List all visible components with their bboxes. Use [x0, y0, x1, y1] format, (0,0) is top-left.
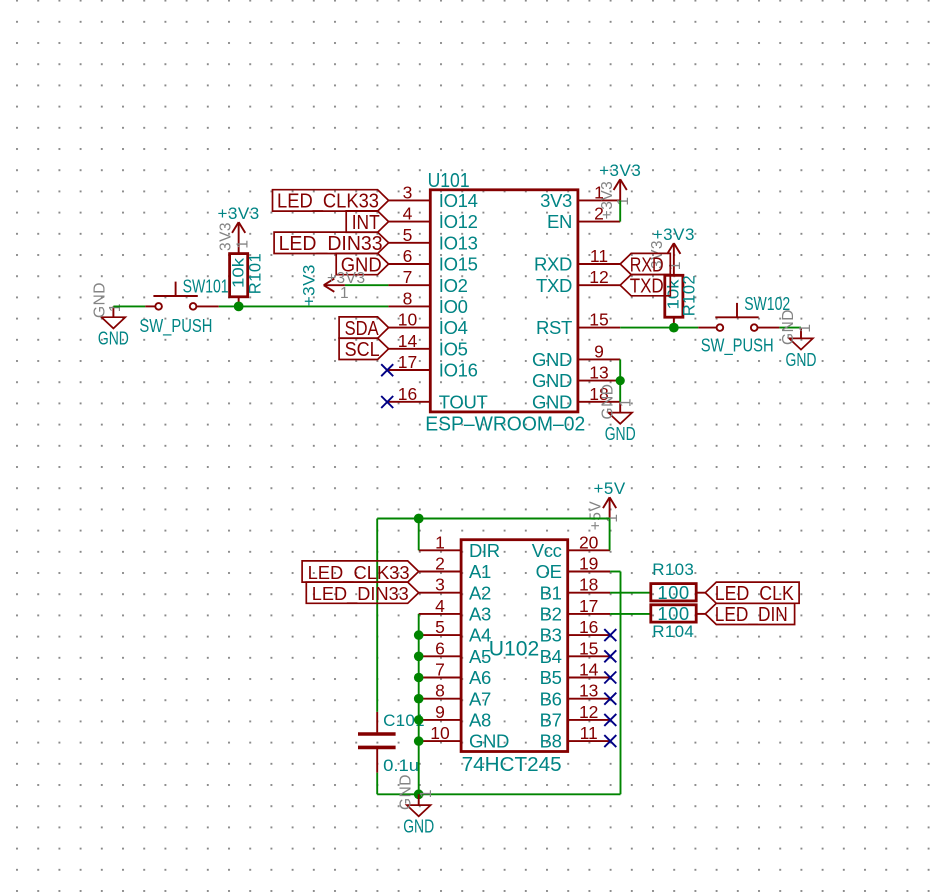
pin 15 B4	[540, 638, 610, 667]
junction (GND rail)	[414, 789, 424, 799]
wire SW101 to IO0	[219, 305, 389, 307]
net label RXD	[620, 253, 670, 276]
svg-text:Vcc: Vcc	[532, 540, 562, 561]
no-connect pin 11	[604, 735, 616, 747]
svg-text:3: 3	[403, 182, 413, 202]
pin 20 Vcc	[532, 532, 610, 561]
no-connect pin 14	[604, 672, 616, 684]
svg-text:5: 5	[403, 225, 413, 245]
svg-text:+3V3: +3V3	[599, 161, 641, 180]
svg-text:2: 2	[435, 554, 445, 574]
svg-text:13: 13	[579, 681, 598, 701]
pin 8 A7	[419, 681, 491, 710]
pin 18 B1	[540, 575, 610, 604]
svg-text:1: 1	[340, 285, 349, 302]
svg-text:9: 9	[594, 341, 604, 361]
svg-text:GND: GND	[532, 370, 572, 391]
svg-text:TXD: TXD	[630, 276, 664, 298]
svg-text:B3: B3	[540, 625, 562, 646]
net label LED_CLK33 (U102)	[302, 561, 419, 584]
ground GND (left)	[98, 306, 129, 348]
pin 16 TOUT	[388, 384, 487, 413]
pin 11 RXD	[534, 246, 620, 275]
IC U101 ESP-WROOM-02	[388, 170, 620, 435]
pin 6 A5	[419, 638, 491, 667]
svg-text:4: 4	[435, 596, 445, 616]
svg-text:GND: GND	[605, 423, 636, 444]
svg-text:20: 20	[579, 532, 599, 552]
pin 1 3V3	[540, 182, 620, 211]
svg-text:LED_CLK33: LED_CLK33	[308, 562, 410, 584]
power +3V3 (R102)	[653, 225, 695, 275]
svg-text:18: 18	[579, 575, 598, 595]
svg-text:B1: B1	[540, 582, 562, 603]
junction (R101/SW101/IO0)	[234, 302, 244, 312]
pin 6 IO15	[388, 246, 477, 275]
wire +3V3 to IO2	[345, 284, 389, 286]
svg-text:LED_CLK33: LED_CLK33	[277, 191, 379, 213]
svg-text:10: 10	[398, 310, 418, 330]
svg-text:R103: R103	[652, 560, 694, 579]
pin 5 IO13	[388, 225, 477, 254]
no-connect pin 16	[381, 396, 393, 408]
svg-text:11: 11	[590, 246, 608, 266]
junction (R102/RST)	[669, 323, 679, 333]
wire C101 to GND rail	[376, 773, 378, 795]
svg-text:74HCT245: 74HCT245	[462, 754, 562, 776]
ground GND (bottom)	[403, 794, 434, 836]
net label LED_CLK	[705, 582, 799, 605]
svg-text:19: 19	[579, 554, 598, 574]
wire OE to GND rail	[610, 572, 620, 795]
svg-text:TOUT: TOUT	[439, 391, 488, 412]
svg-text:RST: RST	[536, 317, 572, 338]
svg-text:+3V3: +3V3	[599, 181, 616, 220]
svg-text:SDA: SDA	[345, 318, 380, 340]
svg-text:13: 13	[589, 363, 608, 383]
svg-text:GND: GND	[92, 282, 109, 318]
switch SW101 SW_PUSH	[139, 276, 228, 337]
pin 9 GND	[532, 341, 620, 370]
svg-text:1: 1	[618, 398, 635, 407]
IC U102 74HCT245	[419, 532, 610, 776]
no-connect pin 13	[604, 693, 616, 705]
svg-text:IO14: IO14	[439, 190, 478, 211]
pin 7 A6	[419, 660, 491, 689]
svg-text:B4: B4	[540, 646, 562, 667]
pin 10 GND	[419, 723, 509, 752]
svg-text:IO12: IO12	[439, 211, 478, 232]
resistor R102 10k	[665, 275, 699, 328]
svg-text:3V3: 3V3	[540, 190, 572, 211]
switch SW102 SW_PUSH	[698, 293, 790, 357]
svg-text:12: 12	[589, 267, 608, 287]
svg-text:15: 15	[589, 310, 608, 330]
svg-text:14: 14	[398, 331, 418, 351]
svg-text:8: 8	[403, 288, 413, 308]
svg-text:U102: U102	[489, 637, 540, 660]
svg-text:+5V: +5V	[588, 501, 605, 531]
svg-text:3V3: 3V3	[218, 222, 235, 251]
svg-text:SCL: SCL	[345, 339, 380, 361]
wire GND rail	[377, 793, 620, 795]
svg-text:IO13: IO13	[439, 232, 478, 253]
svg-text:10: 10	[430, 723, 450, 743]
pin 17 B2	[540, 596, 610, 625]
svg-text:GND: GND	[398, 774, 415, 810]
junction (pin 5)	[414, 630, 424, 640]
svg-text:17: 17	[398, 352, 417, 372]
pin 11 B8	[540, 723, 610, 752]
svg-text:GND: GND	[98, 328, 129, 349]
svg-text:B8: B8	[540, 731, 562, 752]
pin 13 B6	[540, 681, 610, 710]
pin 2 A1	[419, 554, 491, 583]
svg-text:11: 11	[580, 723, 598, 743]
svg-text:3: 3	[435, 575, 445, 595]
wire rail to DIR	[418, 519, 420, 551]
pin 1 DIR	[419, 532, 500, 561]
no-connect pin 15	[604, 650, 616, 662]
net label SDA	[339, 317, 389, 340]
svg-text:A2: A2	[469, 582, 491, 603]
junction (pin 9)	[414, 715, 424, 725]
junction (pin 13)	[616, 376, 625, 385]
svg-text:GND: GND	[469, 731, 509, 752]
resistor R103 100	[651, 560, 706, 603]
svg-text:1: 1	[107, 303, 124, 312]
svg-text:15: 15	[579, 638, 598, 658]
wire B1 to R103	[610, 592, 651, 594]
no-connect pin 12	[604, 714, 616, 726]
svg-text:LED_DIN: LED_DIN	[715, 604, 788, 626]
pin 3 A2	[419, 575, 491, 604]
svg-text:U101: U101	[428, 170, 470, 192]
svg-text:R104: R104	[652, 622, 694, 641]
pin 15 RST	[536, 310, 620, 339]
wire B2 to R104	[610, 613, 651, 615]
pin 19 OE	[536, 554, 611, 583]
svg-text:INT: INT	[352, 212, 380, 234]
power +3V3 (IO2)	[300, 264, 345, 306]
net label INT	[346, 211, 388, 234]
resistor R104 100	[651, 603, 706, 641]
svg-text:TXD: TXD	[536, 275, 572, 296]
wire +5V rail	[377, 518, 609, 520]
pin 14 B5	[540, 660, 610, 689]
svg-text:IO4: IO4	[439, 317, 468, 338]
wire RST	[620, 327, 698, 329]
svg-text:EN: EN	[547, 211, 572, 232]
svg-text:10k: 10k	[231, 258, 248, 288]
pin 10 IO4	[388, 310, 467, 339]
svg-text:R102: R102	[681, 275, 699, 316]
net label LED_CLK33	[273, 190, 389, 213]
power +3V3 (R101)	[218, 204, 260, 254]
svg-text:6: 6	[403, 246, 413, 266]
pin 12 TXD	[536, 267, 620, 296]
junction (pin 8)	[414, 694, 424, 704]
svg-text:RXD: RXD	[534, 254, 572, 275]
svg-text:SW101: SW101	[183, 276, 229, 297]
junction (pin 10)	[414, 736, 424, 746]
power +5V	[593, 479, 625, 518]
svg-text:8: 8	[435, 681, 445, 701]
svg-text:1: 1	[435, 532, 445, 552]
svg-text:OE: OE	[536, 561, 562, 582]
svg-text:A6: A6	[469, 667, 491, 688]
wire SW102 to GND	[779, 327, 801, 329]
ground GND (SW102)	[786, 328, 817, 370]
svg-text:16: 16	[398, 384, 417, 404]
svg-text:IO2: IO2	[439, 275, 468, 296]
svg-text:1: 1	[235, 239, 252, 248]
pin 17 IO16	[388, 352, 477, 381]
svg-text:GND: GND	[600, 384, 617, 420]
wire GND bus (pins 9-13-18)	[619, 359, 621, 401]
pin 14 IO5	[388, 331, 467, 360]
svg-text:6: 6	[435, 638, 445, 658]
svg-text:LED_CLK: LED_CLK	[715, 583, 795, 605]
svg-text:GND: GND	[532, 391, 572, 412]
wire +5V to Vcc	[609, 519, 611, 551]
pin 18 GND	[532, 384, 620, 413]
svg-text:7: 7	[435, 660, 445, 680]
pin 8 IO0	[388, 288, 467, 317]
pin 5 A4	[419, 617, 491, 646]
svg-text:GND: GND	[532, 349, 572, 370]
svg-text:A7: A7	[469, 688, 491, 709]
pin 7 IO2	[388, 267, 467, 296]
svg-text:SW_PUSH: SW_PUSH	[701, 334, 774, 356]
svg-text:+3V3: +3V3	[218, 204, 260, 223]
svg-text:14: 14	[579, 660, 599, 680]
svg-text:+3V3: +3V3	[300, 264, 319, 306]
no-connect pin 17	[381, 364, 393, 376]
svg-text:A4: A4	[469, 625, 491, 646]
svg-text:100: 100	[657, 603, 689, 624]
svg-text:DIR: DIR	[469, 540, 500, 561]
pin 2 EN	[547, 204, 620, 233]
svg-text:A5: A5	[469, 646, 491, 667]
net label TXD	[620, 275, 670, 298]
pin 4 A3	[419, 596, 491, 625]
svg-text:GND: GND	[403, 816, 434, 837]
pin 9 A8	[419, 702, 491, 731]
wire GND to SW101	[113, 305, 145, 307]
svg-text:B6: B6	[540, 688, 562, 709]
wire A3..GND bus	[418, 614, 420, 794]
svg-text:IO15: IO15	[439, 254, 478, 275]
net label LED_DIN	[705, 603, 794, 626]
pin 16 B3	[540, 617, 610, 646]
junction (pin 6)	[414, 652, 424, 662]
svg-text:9: 9	[435, 702, 445, 722]
svg-text:LED_DIN33: LED_DIN33	[312, 583, 409, 605]
junction (rail/DIR)	[414, 514, 424, 524]
svg-text:LED_DIN33: LED_DIN33	[279, 233, 383, 255]
svg-text:IO5: IO5	[439, 338, 468, 359]
no-connect pin 16	[604, 629, 616, 641]
svg-text:R101: R101	[247, 253, 265, 294]
svg-text:1: 1	[797, 323, 814, 332]
wire rail to C101	[376, 519, 378, 712]
resistor R101 10k	[230, 253, 265, 307]
net label LED_DIN33	[274, 232, 389, 255]
wire EN to +3V3	[619, 200, 621, 221]
svg-text:B2: B2	[540, 604, 562, 625]
svg-text:RXD: RXD	[630, 254, 664, 276]
pin 3 IO14	[388, 182, 477, 211]
svg-text:100: 100	[657, 582, 689, 603]
pin 13 GND	[532, 363, 620, 392]
svg-text:A8: A8	[469, 710, 491, 731]
svg-text:4: 4	[403, 204, 413, 224]
svg-text:IO16: IO16	[439, 360, 478, 381]
svg-text:5: 5	[435, 617, 445, 637]
svg-text:A1: A1	[469, 561, 491, 582]
net label GND	[336, 253, 388, 276]
ground GND (U101)	[605, 402, 636, 444]
svg-text:+5V: +5V	[593, 479, 625, 498]
junction (pin 7)	[414, 673, 424, 683]
pin 12 B7	[540, 702, 610, 731]
pin 4 IO12	[388, 204, 477, 233]
svg-text:16: 16	[579, 617, 598, 637]
svg-text:GND: GND	[780, 309, 797, 345]
svg-text:17: 17	[579, 596, 598, 616]
svg-text:0.1u: 0.1u	[383, 756, 419, 775]
capacitor C101 0.1u	[358, 711, 425, 775]
svg-text:7: 7	[403, 267, 413, 287]
svg-text:A3: A3	[469, 604, 491, 625]
svg-text:12: 12	[579, 702, 598, 722]
svg-text:1: 1	[615, 196, 632, 205]
net label SCL	[339, 338, 389, 361]
svg-text:B5: B5	[540, 667, 562, 688]
svg-text:SW_PUSH: SW_PUSH	[139, 315, 212, 337]
net label LED_DIN33 (U102)	[306, 582, 418, 605]
svg-text:1: 1	[418, 789, 435, 798]
power +3V3 (U101 pin 1)	[599, 161, 641, 200]
svg-text:GND: GND	[786, 349, 817, 370]
svg-text:IO0: IO0	[439, 296, 468, 317]
svg-text:B7: B7	[540, 710, 562, 731]
svg-text:ESP–WROOM–02: ESP–WROOM–02	[425, 413, 585, 435]
